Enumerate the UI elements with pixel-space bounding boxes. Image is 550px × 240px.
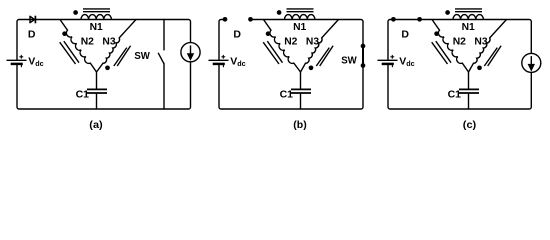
svg-text:N1: N1 xyxy=(293,21,306,33)
svg-text:N2: N2 xyxy=(81,36,94,48)
inductor N3 (a) xyxy=(97,20,137,73)
N1 core lines (a) xyxy=(83,9,110,12)
svg-text:SW: SW xyxy=(134,50,150,62)
svg-text:N3: N3 xyxy=(474,36,487,48)
current source arrow (a) xyxy=(190,45,192,54)
svg-text:C1: C1 xyxy=(280,89,294,101)
svg-text:C1: C1 xyxy=(76,89,90,101)
current source (c) xyxy=(522,53,541,72)
N3 polarity dot (c) xyxy=(477,65,482,70)
inductor N2 (a) xyxy=(60,20,97,73)
wire C1 branch (c) xyxy=(468,72,470,109)
switch SW branch (a) xyxy=(158,20,164,110)
svg-text:C1: C1 xyxy=(448,89,462,101)
N1 polarity dot (b) xyxy=(277,10,282,15)
N2 core lines (b) xyxy=(263,41,282,64)
inductor N3 (c) xyxy=(469,20,507,73)
wire outer loop (c) xyxy=(388,20,531,110)
svg-text:N2: N2 xyxy=(453,36,466,48)
N1 polarity dot (a) xyxy=(73,10,78,15)
capacitor C1 plates (c) xyxy=(459,89,479,93)
svg-text:D: D xyxy=(28,29,36,41)
inductor N2 (c) xyxy=(432,20,469,73)
svg-text:(b): (b) xyxy=(293,119,306,131)
svg-text:N2: N2 xyxy=(284,36,297,48)
wire C1 branch (b) xyxy=(300,72,302,109)
switch SW closed segment (b) xyxy=(362,46,364,66)
N1 core lines (b) xyxy=(287,9,314,12)
battery Vdc plates (a) xyxy=(7,60,27,67)
battery Vdc gap (b) xyxy=(217,61,222,63)
svg-text:SW: SW xyxy=(341,54,357,66)
svg-text:D: D xyxy=(401,29,409,41)
N2 polarity dot (b) xyxy=(266,31,271,36)
battery Vdc gap (a) xyxy=(15,61,20,63)
N2 core lines (c) xyxy=(432,41,451,64)
battery plus sign (c) xyxy=(390,55,394,59)
svg-text:(c): (c) xyxy=(463,119,476,131)
diode D open gap (b) xyxy=(227,17,249,22)
N2 polarity dot (a) xyxy=(62,31,67,36)
N3 core lines (a) xyxy=(114,46,131,66)
battery Vdc plates (b) xyxy=(209,60,229,67)
svg-text:N3: N3 xyxy=(306,36,319,48)
capacitor C1 plates (b) xyxy=(291,89,311,93)
battery Vdc gap (c) xyxy=(386,61,391,63)
svg-text:N1: N1 xyxy=(462,21,475,33)
diode D open terminal dots (b) xyxy=(223,17,228,22)
inductor N2 (b) xyxy=(264,20,301,73)
N3 core lines (c) xyxy=(484,46,501,66)
svg-text:N1: N1 xyxy=(90,21,103,33)
N3 polarity dot (a) xyxy=(105,65,110,70)
N1 core lines (c) xyxy=(455,9,482,12)
inductor N3 (b) xyxy=(301,20,339,73)
switch SW terminal dots (b) xyxy=(361,44,366,49)
N1 polarity dot (c) xyxy=(445,10,450,15)
battery Vdc plates (c) xyxy=(378,60,398,67)
current source arrow (c) xyxy=(530,56,532,65)
N3 core lines (b) xyxy=(316,46,333,66)
wire C1 branch (a) xyxy=(96,72,98,109)
battery plus sign (a) xyxy=(19,55,23,59)
svg-text:N3: N3 xyxy=(102,36,115,48)
svg-text:(a): (a) xyxy=(89,119,102,131)
inductor N1 coil (c) xyxy=(453,15,483,20)
wire outer loop (a) xyxy=(17,20,191,110)
inductor N1 coil (b) xyxy=(285,15,315,20)
N2 core lines (a) xyxy=(60,41,79,64)
battery plus sign (b) xyxy=(221,55,225,59)
svg-text:D: D xyxy=(233,29,241,41)
current source (a) xyxy=(181,43,200,62)
inductor N1 coil (a) xyxy=(81,15,111,20)
capacitor C1 plates (a) xyxy=(87,89,107,93)
N2 polarity dot (c) xyxy=(434,31,439,36)
N3 polarity dot (b) xyxy=(309,65,314,70)
diode D (a) xyxy=(30,16,35,24)
diode D conducting junction dots (c) xyxy=(391,17,396,22)
wire outer loop (b) xyxy=(219,20,363,110)
